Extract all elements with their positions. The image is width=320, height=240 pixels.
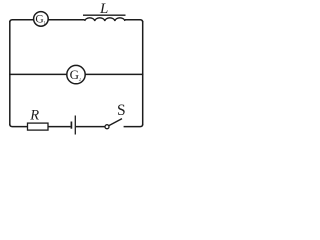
svg-text:R: R xyxy=(29,108,39,124)
wire bottom branch middle segment (battery to switch) xyxy=(76,126,105,128)
wire bottom branch right segment (switch to corner) xyxy=(124,124,143,127)
wire middle branch xyxy=(9,73,143,75)
svg-text:S: S xyxy=(117,102,126,119)
label S xyxy=(117,102,126,119)
inductor L core bar xyxy=(83,14,126,16)
galvanometer G1 xyxy=(34,12,49,27)
switch S blade xyxy=(109,119,122,126)
svg-text:L: L xyxy=(99,1,108,17)
wire left vertical edge xyxy=(9,21,11,125)
inductor L coil humps xyxy=(85,18,125,21)
battery cell short plate xyxy=(70,122,72,129)
wire right vertical edge xyxy=(142,21,144,125)
svg-text:G: G xyxy=(70,67,79,82)
wire bottom branch left segment (corner to battery) xyxy=(10,124,71,127)
wire top branch right segment (inductor to corner) xyxy=(125,20,143,23)
label R xyxy=(29,108,39,124)
switch S pivot contact xyxy=(105,125,109,129)
battery cell long plate xyxy=(74,116,76,135)
wire top branch left segment (to inductor) xyxy=(10,20,85,23)
galvanometer G2 xyxy=(67,65,85,83)
resistor R xyxy=(28,123,49,130)
label L xyxy=(99,1,108,17)
